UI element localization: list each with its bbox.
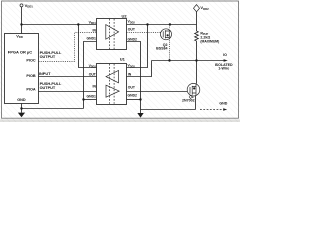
terminal VDD1 bbox=[20, 4, 23, 7]
node dot IO/Q1 drain bbox=[195, 59, 197, 61]
wire U2 OUT dotted to Q2 gate bbox=[127, 32, 161, 34]
wire GND dashed to arrow bbox=[200, 109, 223, 111]
svg-text:OUT: OUT bbox=[128, 86, 136, 90]
isolator U1 box bbox=[97, 64, 127, 105]
isolator U2 box bbox=[97, 19, 127, 50]
wire U2 GND2 down bbox=[127, 42, 141, 110]
svg-text:OUT: OUT bbox=[89, 73, 97, 77]
node dot IO/Q2 drain bbox=[168, 59, 170, 61]
wire PIOA to U1 IN bbox=[39, 91, 97, 93]
svg-text:1-Wire: 1-Wire bbox=[218, 67, 229, 71]
svg-text:U1: U1 bbox=[120, 56, 126, 61]
Q2 source dotted to rail bbox=[169, 25, 171, 29]
buffer triangle U2 bbox=[106, 25, 119, 40]
ground symbol GND1 bbox=[20, 109, 23, 113]
svg-text:INPUT: INPUT bbox=[39, 72, 51, 76]
wire PIOC dotted path to U2 IN bbox=[39, 33, 97, 62]
arrowhead GND bbox=[223, 108, 227, 111]
node dot VDD2 rail/U1 bbox=[146, 23, 148, 25]
wire VDD1 down bbox=[21, 7, 23, 25]
wire VDD2 feed to U1 bbox=[127, 25, 148, 68]
node dot VDD2 rail/Q2 bbox=[169, 23, 171, 25]
buffer triangle U1 upper (points left) bbox=[106, 70, 119, 82]
isolation barrier U1 dashed bbox=[109, 64, 114, 104]
Q2 mosfet internals bbox=[163, 30, 169, 39]
ground symbol GND2 isolated bbox=[139, 110, 142, 114]
node dot Q2 internal bbox=[167, 34, 169, 36]
svg-text:GND2: GND2 bbox=[128, 38, 138, 42]
svg-text:VDD2: VDD2 bbox=[200, 5, 209, 11]
resistor RPUP vertical + zigzag bbox=[195, 12, 199, 61]
svg-text:FPGA OR µC: FPGA OR µC bbox=[8, 50, 32, 55]
buffer triangle U1 lower (points right) bbox=[106, 85, 119, 97]
transistor Q2 circle bbox=[161, 29, 172, 40]
isolation barrier U2 dashed bbox=[109, 19, 114, 49]
wire U1 GND2 bbox=[127, 99, 141, 101]
svg-text:GND1: GND1 bbox=[87, 37, 97, 41]
svg-text:IO: IO bbox=[223, 53, 227, 57]
wire IO line bbox=[152, 60, 225, 62]
svg-text:BSS84: BSS84 bbox=[156, 47, 167, 51]
wire FPGA GND down bbox=[21, 104, 23, 109]
svg-text:PIOA: PIOA bbox=[26, 88, 36, 92]
wire GND2 rail bbox=[141, 109, 196, 111]
wire INPUT PIOB to U1 OUT bbox=[39, 76, 97, 78]
wire U1 IN right to IO bbox=[127, 61, 152, 77]
svg-text:IN: IN bbox=[93, 85, 97, 89]
node dot VDD1/FPGA bbox=[20, 23, 22, 25]
svg-text:VDD: VDD bbox=[16, 33, 23, 39]
svg-text:(MAXIMUM): (MAXIMUM) bbox=[200, 40, 219, 44]
wire VDD2 rail right of U2 bbox=[127, 24, 197, 26]
svg-text:PIOC: PIOC bbox=[26, 59, 36, 63]
svg-text:OUT: OUT bbox=[128, 28, 136, 32]
node dot GND2/U1 bbox=[139, 98, 141, 100]
wire U2 GND1 bbox=[84, 42, 97, 109]
wire VDD1 rail bbox=[22, 24, 97, 26]
wire into FPGA VDD bbox=[21, 25, 23, 34]
svg-text:GND: GND bbox=[17, 98, 26, 102]
Q2 drain dotted to IO bbox=[169, 40, 171, 61]
svg-text:IN: IN bbox=[128, 72, 132, 76]
wire U1 OUT right to Q1 gate bbox=[127, 91, 188, 93]
svg-text:OUTPUT: OUTPUT bbox=[40, 86, 56, 90]
node dot Q1 internal bbox=[193, 87, 195, 89]
node dot GND1 rail bbox=[20, 107, 22, 109]
svg-text:GND: GND bbox=[219, 101, 227, 105]
svg-text:U2: U2 bbox=[122, 13, 128, 18]
svg-text:VDD1: VDD1 bbox=[25, 3, 34, 9]
node dot rail/U1 VDD bbox=[77, 23, 79, 25]
svg-text:IN: IN bbox=[93, 29, 97, 33]
svg-text:GND1: GND1 bbox=[87, 95, 97, 99]
FPGA box bbox=[5, 34, 39, 104]
svg-text:2N7002: 2N7002 bbox=[182, 99, 195, 103]
wire U1 GND1 stub bbox=[84, 99, 97, 101]
svg-text:OUTPUT: OUTPUT bbox=[40, 55, 56, 59]
svg-text:PIOB: PIOB bbox=[26, 74, 36, 78]
terminal VDD2 diamond bbox=[194, 5, 200, 12]
wire Q1 source bbox=[195, 96, 197, 110]
svg-text:GND2: GND2 bbox=[128, 94, 138, 98]
transistor Q1 circle bbox=[187, 83, 200, 96]
wire GND1 rail bbox=[22, 108, 84, 110]
node dot GND1/U1 bbox=[82, 98, 84, 100]
wire Q1 drain bbox=[196, 61, 198, 84]
wire U1 VDD from rail bbox=[79, 25, 97, 68]
arrowhead IO bbox=[224, 59, 228, 62]
Q1 mosfet internals bbox=[190, 84, 196, 96]
